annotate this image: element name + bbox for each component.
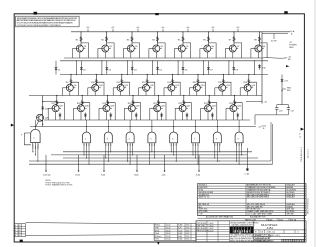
junction row1-6 top: [208, 31, 209, 32]
wire row1-2 vertical: [106, 32, 108, 46]
wire row1-1 loop: [81, 43, 89, 58]
node +10 label 6: [212, 29, 214, 32]
wire gate 5 input drop A: [148, 146, 150, 164]
wire row2-9 vertical: [70, 75, 72, 86]
revision table: [14, 224, 25, 237]
diode D-row3-17: [59, 113, 61, 121]
resistor R-row1-2: [106, 36, 108, 42]
transistor Q-row1-1: [76, 45, 83, 52]
wire row3-21 base: [150, 107, 154, 109]
wire row1-6 loop: [209, 43, 217, 58]
wire -15 drop: [254, 115, 256, 125]
junction row1-3 top: [131, 31, 132, 32]
wire row1-5 emitter: [181, 52, 183, 58]
wire row2-11 loop: [122, 82, 130, 95]
node +10 label 4: [162, 29, 164, 32]
wire row3-24 loop: [235, 103, 243, 120]
svg-text:CS-B-4151-0-1: CS-B-4151-0-1: [301, 147, 303, 162]
wire bus y58: [64, 57, 262, 59]
junction gate output x195.5: [195, 126, 196, 127]
diode D-row3-19: [110, 113, 112, 121]
parts table row line 12: [198, 215, 307, 217]
wire row1-3 loop: [132, 43, 140, 58]
wire row2-14 emitter: [196, 91, 198, 95]
resistor R-row1-6: [208, 36, 210, 42]
svg-text:4151: 4151: [186, 236, 190, 238]
wire row2-14 vertical: [197, 75, 199, 86]
junction row1-1 top: [80, 31, 81, 32]
diode D4: [131, 61, 133, 75]
wire GND stub: [273, 34, 275, 40]
wire row3-20 loop: [133, 103, 141, 120]
svg-text:1-8-62: 1-8-62: [166, 233, 171, 235]
transistor Q-row2-9: [66, 84, 73, 91]
terminal H-04 bottom: [136, 155, 138, 171]
node +10 label 2: [112, 29, 114, 32]
svg-text:4151: 4151: [186, 228, 190, 230]
wire row3-17 loop: [57, 103, 65, 120]
svg-text:1: 1: [284, 241, 285, 243]
junction gate output x35.4: [35, 126, 36, 127]
wire bus y120: [44, 119, 250, 121]
wire row3-21 emitter: [156, 112, 158, 120]
wire row2 feed 6: [203, 61, 205, 75]
transistor Q-row1-4: [153, 45, 160, 52]
wire gate output riser x217.3: [216, 120, 218, 127]
svg-text:R.Maxcy: R.Maxcy: [155, 236, 162, 238]
terminal E-04 bottom: [78, 155, 80, 171]
node +10 label 3: [137, 29, 139, 32]
svg-text:SHT-MD: SHT-MD: [287, 214, 295, 216]
wire row3-18 loop: [82, 103, 90, 120]
svg-text:DEC FORM NO: DEC FORM NO: [308, 198, 310, 214]
diode D1: [55, 61, 57, 75]
wire gate 6 input drop A: [170, 146, 172, 152]
transistor Q-row2-13: [168, 84, 175, 91]
svg-text:A-ML: A-ML: [178, 235, 182, 238]
wire row2-13 emitter: [170, 91, 172, 95]
transistor Q-row1-6: [204, 45, 211, 52]
NAND gate E1: [31, 129, 40, 149]
svg-text:4151: 4151: [186, 225, 190, 227]
transistor Q-row1-8: [255, 45, 262, 52]
wire gate 7 input drop A: [192, 146, 194, 155]
svg-text:GND: GND: [289, 47, 294, 49]
svg-text:R.Best: R.Best: [155, 224, 161, 227]
parts table row line 9: [198, 207, 307, 209]
svg-text:2: 2: [286, 241, 287, 243]
wire gate 2 input drop C: [86, 146, 88, 158]
parts list table: [198, 184, 307, 216]
parts table row line 7: [198, 202, 307, 204]
svg-text:1-6-62: 1-6-62: [166, 228, 171, 230]
size code number row: [254, 229, 306, 231]
wire row2-16 loop: [249, 82, 257, 95]
svg-text:1-8-62: 1-8-62: [166, 230, 171, 232]
svg-text:4151: 4151: [267, 226, 274, 230]
wire row1-2 base: [98, 48, 102, 50]
wire row3-24 base: [226, 107, 230, 109]
wire row3-17 emitter: [55, 112, 57, 120]
wire harness line 3: [63, 157, 258, 159]
wire row3-22 base: [175, 107, 179, 109]
diode D-row3-24: [237, 113, 239, 121]
resistor R-row3-22: [183, 100, 185, 106]
junction row2-14 top: [197, 74, 198, 75]
wire row2-11 emitter: [120, 91, 122, 95]
transistor Q-row1-2: [102, 45, 109, 52]
resistor R-row3-19: [107, 100, 109, 106]
wire row3-22 emitter: [182, 112, 184, 120]
wire row1-1 vertical: [80, 32, 82, 46]
svg-text:IND: IND: [287, 90, 291, 92]
svg-text:4151: 4151: [186, 239, 190, 241]
wire gate 7 input drop C: [195, 146, 197, 158]
wire row3-21 vertical: [157, 96, 159, 106]
svg-text:62 GP: 62 GP: [271, 40, 277, 42]
transistor Q-row3-21: [154, 105, 161, 112]
drafting signature grid: [154, 223, 196, 240]
svg-text:5: 5: [293, 241, 294, 243]
wire row2 feed 2: [101, 61, 103, 75]
junction row2-15 top: [223, 74, 224, 75]
wire gate 1 input drop B: [37, 146, 39, 161]
bottom border tick B: [157, 242, 160, 245]
wire row2-12 emitter: [145, 91, 147, 95]
svg-text:W.Olk: W.Olk: [155, 230, 160, 232]
wire gate 9 input drop C: [238, 146, 240, 164]
svg-text:J.Fad: J.Fad: [155, 233, 159, 235]
wire row2-11 vertical: [121, 75, 123, 86]
wire row2 feed 5: [177, 61, 179, 75]
junction gate output x173.7: [173, 126, 174, 127]
svg-text:4: 4: [291, 241, 292, 243]
wire row2 feed 8: [253, 61, 255, 75]
svg-text:C 1B: C 1B: [245, 173, 250, 175]
parts table row line 11: [198, 212, 307, 214]
wire row2-13 base: [164, 87, 168, 89]
wire row1-8 loop: [260, 43, 268, 58]
node +10 label 7: [237, 29, 239, 32]
resistor R-row1-8: [259, 36, 261, 42]
wire row3-23 loop: [209, 103, 217, 120]
wire row1-4 loop: [158, 43, 166, 58]
wire row3-22 loop: [184, 103, 192, 120]
wire row1-4 vertical: [157, 32, 159, 46]
svg-text:+10 A: +10 A: [289, 30, 295, 33]
transistor Q-row3-20: [128, 105, 135, 112]
transistor Q-row3-23: [205, 105, 212, 112]
wire bottom long line 1: [26, 223, 155, 224]
wire gate output riser x239.1: [238, 120, 240, 127]
wire row2-15 vertical: [222, 75, 224, 86]
wire row1-8 base: [251, 48, 255, 50]
wire row2-10 vertical: [95, 75, 97, 86]
wire row1-5 vertical: [182, 32, 184, 46]
svg-text:FOR D TRANSISTORS IS 2 PKG: FOR D TRANSISTORS IS 2 PKG: [46, 183, 73, 186]
diode D-row3-22: [186, 113, 188, 121]
wire gate 4 input drop B: [132, 146, 134, 155]
wire gate 5 input drop C: [151, 146, 153, 152]
wire harness line 4: [29, 160, 271, 162]
wire row2 feed 1: [76, 61, 78, 75]
wire gate output riser x151.9: [151, 120, 153, 127]
wire row3-23 emitter: [207, 112, 209, 120]
resistor R-row3-24: [234, 100, 236, 106]
junction gate output x217.3: [217, 126, 218, 127]
terminal D-04 (1) bottom: [45, 155, 47, 171]
resistor R-row2-11: [121, 79, 123, 85]
transistor Q-row1-7: [229, 45, 236, 52]
wire bus y74.5: [60, 74, 268, 76]
junction row2-16 top: [248, 74, 249, 75]
svg-text:1/4W 5% T-2: 1/4W 5% T-2: [199, 197, 210, 199]
resistor R-row3-18: [81, 100, 83, 106]
wire right rail x262: [261, 32, 263, 104]
top border tick C: [284, 11, 287, 13]
capacitor C18: [276, 105, 278, 108]
resistor R-row1-5: [182, 36, 184, 42]
wire gate output riser x86.5: [86, 120, 88, 127]
wire row1-8 vertical: [259, 32, 261, 46]
wire row1-5 base: [174, 48, 178, 50]
wire row3-20 base: [124, 107, 128, 109]
wire gate output riser x108.3: [107, 120, 109, 127]
svg-text:A-PL: A-PL: [178, 227, 182, 230]
terminal K-04 bottom: [198, 155, 200, 171]
wire row3-17 vertical: [56, 96, 58, 106]
svg-text:MIL DIA COM 1MW PBLG: MIL DIA COM 1MW PBLG: [247, 196, 270, 199]
NAND gate E2: [83, 127, 91, 147]
diode D3: [106, 61, 108, 75]
wire row3-18 emitter: [80, 112, 82, 120]
svg-text:D-04 (1): D-04 (1): [43, 174, 51, 176]
wire row1-1 emitter: [79, 52, 81, 58]
wire top +10 bus: [71, 31, 290, 33]
wire row3-24 vertical: [234, 96, 236, 106]
wire row1-5 loop: [183, 43, 191, 58]
parts table row line 4: [198, 192, 307, 194]
svg-text:9: 9: [302, 241, 303, 243]
junction gate output x86.5: [86, 126, 87, 127]
wire gate output riser x35.4: [34, 120, 36, 127]
transistor Q-row2-16: [244, 84, 251, 91]
wire left cell vertical x42.7: [42, 96, 44, 127]
wire row1-3 emitter: [130, 52, 132, 58]
wire row3-24 emitter: [232, 112, 234, 120]
wire row1-7 loop: [234, 43, 242, 58]
parts table row line 2: [198, 188, 307, 190]
terminal C-1B bottom right: [246, 148, 248, 168]
wire gate 1 input drop C: [34, 146, 36, 155]
resistor R-row2-15: [222, 79, 224, 85]
wire row2-10 base: [88, 87, 92, 89]
wire row2 feed 4: [152, 61, 154, 75]
top border tick A: [34, 12, 38, 15]
wire row1-4 emitter: [155, 52, 157, 58]
wire row2-9 loop: [71, 82, 79, 95]
wire +10 terminal right: [262, 33, 288, 35]
wire gate 4 input drop C: [129, 146, 131, 164]
transistor Q-row2-12: [143, 84, 150, 91]
NAND gate E5: [148, 127, 156, 147]
resistor R-row1-7: [233, 36, 235, 42]
notice text box: [16, 16, 80, 27]
right border tick: [301, 128, 304, 131]
diode D-row3-20: [135, 113, 137, 121]
wire row2-11 base: [113, 87, 117, 89]
accessory information row: [198, 217, 307, 219]
junction row1-4 top: [157, 31, 158, 32]
junction row2-10 top: [96, 74, 97, 75]
resistor R-row3-23: [208, 100, 210, 106]
node +10 label 1: [87, 29, 89, 32]
svg-text:PRINTED CIRCUIT REV.: PRINTED CIRCUIT REV.: [255, 241, 275, 243]
diode D-row3-18: [84, 113, 86, 121]
transistor Q-row3-24: [230, 105, 237, 112]
resistor R-row2-16: [248, 79, 250, 85]
resistor R-row2-10: [95, 79, 97, 85]
wire gate 5 input drop B: [153, 146, 155, 158]
transistor Q-row2-14: [193, 84, 200, 91]
wire row2-16 emitter: [247, 91, 249, 95]
terminal F-04 bottom: [103, 155, 105, 171]
wire row2 feed 7: [228, 61, 230, 75]
svg-text:T.Hill: T.Hill: [155, 228, 159, 230]
title block outline: [196, 221, 306, 242]
wire harness riser right B: [272, 124, 274, 164]
parts list band dividers: [266, 218, 268, 221]
resistor R-row1-3: [131, 36, 133, 42]
svg-text:CS: CS: [260, 232, 264, 234]
wire row1-2 emitter: [104, 52, 106, 58]
wire row1-6 emitter: [206, 52, 208, 58]
junction row3-18 top: [82, 95, 83, 96]
junction row3-20 top: [132, 95, 133, 96]
wire +10 right of row3: [246, 100, 263, 102]
wire gate 2 input drop B: [88, 146, 90, 164]
wire row2-10 loop: [96, 82, 104, 95]
wire row1-6 vertical: [208, 32, 210, 46]
title block name grid: [196, 223, 230, 225]
junction gate output x108.3: [108, 126, 109, 127]
transistor Q25 left: [37, 114, 44, 121]
note text: [46, 180, 73, 187]
junction row3-23 top: [209, 95, 210, 96]
wire row2-12 loop: [147, 82, 155, 95]
wire gate 8 input drop A: [214, 146, 216, 158]
wire row3-19 loop: [108, 103, 116, 120]
terminal J-04 bottom: [164, 155, 166, 171]
wire gate 4 input drop A: [127, 146, 129, 161]
svg-text:C19: C19: [290, 111, 293, 113]
title block small print below logo: [230, 234, 272, 243]
resistor R-row2-14: [197, 79, 199, 85]
wire row2 feed 3: [126, 61, 128, 75]
junction row3-21 top: [158, 95, 159, 96]
wire row2-13 vertical: [172, 75, 174, 86]
svg-text:1-6-62: 1-6-62: [209, 230, 214, 232]
wire harness line 2: [51, 154, 247, 156]
diode D7: [207, 61, 209, 75]
wire gate 6 input drop B: [175, 146, 177, 161]
wire row2-10 emitter: [94, 91, 96, 95]
wire row3-23 base: [201, 107, 205, 109]
wire row3-22 vertical: [183, 96, 185, 106]
svg-text:B-MD-BG: B-MD-BG: [287, 197, 296, 199]
junction row1-8 top: [259, 31, 260, 32]
wire gate1 left loop box: [24, 133, 31, 145]
wire Q25 emitter to gate1: [35, 121, 38, 130]
wire harness line 5: [29, 163, 273, 165]
diode D8: [233, 61, 235, 75]
wire row1-7 base: [225, 48, 229, 50]
wire gate output riser x195.5: [195, 120, 197, 127]
wire row2-9 emitter: [69, 91, 71, 95]
resistor R-row1-1: [80, 36, 82, 42]
svg-text:4151-0-1: 4151-0-1: [267, 232, 277, 234]
svg-text:C1: C1: [299, 136, 301, 138]
wire row1-1 base: [72, 48, 76, 50]
wire row1-3 base: [123, 48, 127, 50]
wire row3-19 emitter: [105, 112, 107, 120]
diode D5: [157, 61, 159, 75]
svg-text:4151-0-1: 4151-0-1: [308, 148, 310, 158]
diode D-row3-21: [161, 113, 163, 121]
wire row3-18 base: [74, 107, 78, 109]
diode D25 left: [41, 107, 44, 109]
parts table row line 1: [198, 185, 307, 187]
NAND gate E4: [126, 127, 134, 147]
svg-text:1-9-62: 1-9-62: [166, 239, 171, 241]
junction row1-2 top: [106, 31, 107, 32]
wire row1-8 emitter: [257, 52, 259, 58]
junction row2-9 top: [70, 74, 71, 75]
svg-text:4151: 4151: [186, 230, 190, 232]
wire row3-23 vertical: [208, 96, 210, 106]
resistor R-row2-12: [146, 79, 148, 85]
wire harness line 1: [63, 151, 252, 153]
junction gate output x130.1: [130, 126, 131, 127]
terminal arrow right mid: [286, 65, 289, 67]
wire gate output riser x173.7: [173, 120, 175, 127]
parts table column line 2: [285, 184, 287, 216]
wire row2-15 base: [215, 87, 219, 89]
transistor Q-row3-22: [179, 105, 186, 112]
wire row3-19 vertical: [107, 96, 109, 106]
bottom border tick A: [20, 240, 23, 243]
svg-text:K.Fitz: K.Fitz: [155, 238, 159, 241]
wire gate 6 input drop C: [173, 146, 175, 155]
diode D6: [182, 61, 184, 75]
transistor Q-row3-17: [52, 105, 59, 112]
svg-text:COPYRIGHT 1961 BY DIGITAL EQUI: COPYRIGHT 1961 BY DIGITAL EQUIPMENT CORP…: [17, 24, 62, 27]
wire gate output riser x130.1: [129, 120, 131, 127]
wire row2-15 emitter: [221, 91, 223, 95]
resistor R-row3-17: [56, 100, 58, 106]
NAND gate E8: [213, 127, 221, 147]
wire gate 2 input drop A: [83, 146, 85, 155]
wire row2-14 loop: [198, 82, 206, 95]
svg-text:6: 6: [295, 241, 296, 243]
svg-text:3: 3: [289, 241, 290, 243]
wire bottom long line 2: [26, 234, 155, 237]
svg-text:7: 7: [297, 241, 298, 243]
junction row2-11 top: [121, 74, 122, 75]
svg-text:1-9-62: 1-9-62: [166, 236, 171, 238]
wire gate 3 input drop C: [107, 146, 109, 161]
NAND gate E9: [235, 127, 243, 147]
